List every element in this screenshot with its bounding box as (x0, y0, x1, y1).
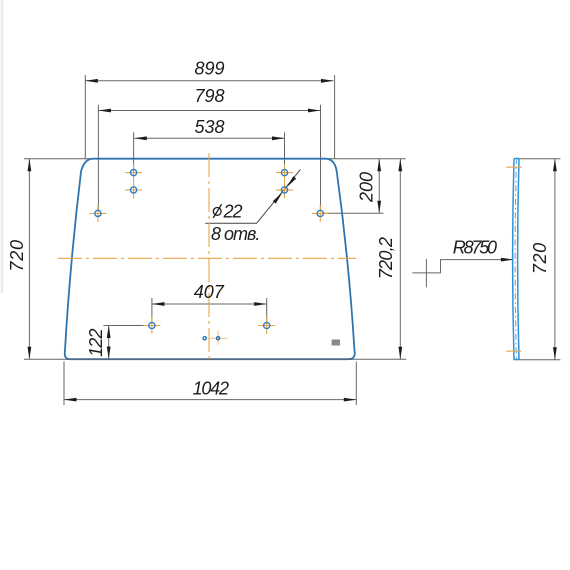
ext 1042 left (63, 362, 65, 406)
dim 407 (152, 303, 267, 305)
side view right edge (518, 158, 519, 359)
arrows 407 (152, 302, 165, 306)
extension lines (24, 75, 560, 405)
heater connector (332, 340, 340, 346)
arrows 720 side (553, 159, 557, 172)
arrows leader d22 (273, 191, 284, 203)
dim 899 (85, 80, 333, 82)
dimension texts (7, 58, 550, 398)
svg-text:200: 200 (357, 172, 377, 203)
dim 122 (108, 326, 110, 360)
hole H1 (95, 210, 101, 216)
side view left edge (513, 158, 514, 359)
side view centerline (515, 158, 516, 359)
dim 720 side (554, 159, 556, 360)
ext bottom edge (24, 358, 406, 360)
holes (95, 170, 324, 329)
ext 122 (103, 325, 148, 327)
ext 407 left (151, 298, 153, 325)
arrows 122 (107, 326, 111, 339)
centerline horizontal (58, 257, 356, 259)
ext 407 right (266, 298, 268, 325)
svg-text:720: 720 (7, 239, 27, 271)
ext 899 left (84, 75, 86, 159)
svg-text:1042: 1042 (193, 378, 229, 398)
ext 899 right (334, 75, 336, 159)
ext top edge (24, 158, 406, 160)
page edge band (1, 0, 3, 293)
arrows 899 (85, 79, 98, 83)
svg-text:720: 720 (530, 242, 550, 274)
arrows 720,2 (398, 159, 402, 172)
pins (203, 337, 220, 340)
arrows 1042 (64, 398, 77, 402)
dim 538 (134, 137, 284, 139)
cross holes 4-5 (276, 172, 293, 174)
arrows 798 (99, 109, 112, 113)
ext 1042 right (355, 362, 357, 406)
ext 798 right (320, 105, 322, 210)
svg-text:899: 899 (194, 58, 224, 78)
arrows 538 (134, 136, 147, 140)
svg-text:122: 122 (86, 328, 106, 356)
ext 538 right (284, 132, 286, 169)
cross hole 6 (312, 212, 329, 214)
text d22 (213, 204, 221, 218)
dim 200 (378, 159, 380, 214)
dim 720,2 (399, 159, 401, 359)
hole H7 (149, 322, 155, 328)
ext hole right y213 (324, 212, 384, 214)
cross hole 8 (258, 325, 275, 327)
arrow R8750 (501, 258, 514, 262)
side view caps (514, 157, 519, 159)
hole crosses (89, 164, 328, 334)
leader diameter 22 (205, 170, 300, 224)
leader R8750 (412, 260, 513, 273)
svg-text:22: 22 (223, 202, 243, 222)
svg-text:538: 538 (194, 117, 224, 137)
hole H5 (281, 187, 287, 193)
ext side top (516, 158, 561, 160)
bottom edge shading (66, 358, 352, 360)
arrows (28, 79, 557, 402)
dimension lines (29, 81, 555, 400)
hole H3 (131, 187, 137, 193)
svg-text:720,2: 720,2 (376, 237, 396, 279)
hole H2 (131, 170, 137, 176)
dim 1042 (64, 399, 356, 401)
svg-text:407: 407 (194, 282, 225, 302)
centerline vertical (208, 153, 210, 362)
hole H6 (317, 210, 323, 216)
arrows 200 (377, 159, 381, 172)
svg-text:R8750: R8750 (453, 238, 497, 258)
hole H4 (281, 170, 287, 176)
ext side bottom (514, 359, 561, 361)
cross hole 1 (89, 212, 106, 214)
ext 538 left (133, 132, 135, 169)
dim 798 (99, 110, 321, 112)
side view tick top (506, 166, 522, 168)
cross hole 7 (143, 325, 160, 327)
arrows 720 left (28, 159, 32, 172)
ext 798 left (97, 105, 99, 210)
glass outline main view (65, 159, 355, 360)
cross holes 2-3 (125, 172, 142, 174)
svg-text:8 отв.: 8 отв. (211, 224, 259, 244)
svg-text:798: 798 (194, 86, 224, 106)
R8750 center cross (425, 259, 427, 287)
dim 720 left (28, 159, 30, 359)
pin crosses (210, 330, 228, 345)
hole H8 (264, 322, 270, 328)
side view tick bottom (506, 350, 521, 352)
